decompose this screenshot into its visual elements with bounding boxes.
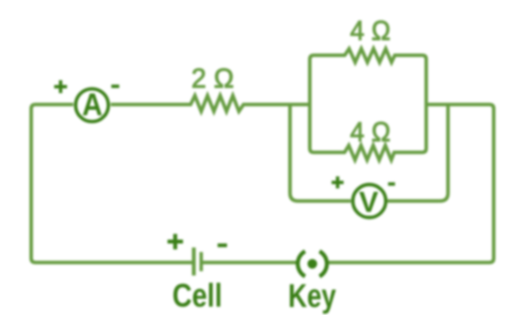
voltmeter U2 circle [353, 185, 386, 218]
voltmeter letter V [359, 192, 378, 212]
voltmeter minus sign [388, 182, 395, 185]
label Key [290, 284, 336, 314]
wire: outer loop left and bottom-left [31, 105, 194, 263]
key S1 left arc [298, 251, 305, 276]
parallel box with resistor R2 (top 4 ohm) and resistor R3 (bottom 4 ohm) [310, 49, 426, 160]
key S1 right arc [320, 251, 327, 276]
ammeter plus sign [54, 80, 67, 93]
label 2 ohm for R1 [193, 68, 233, 87]
wire: bottom middle cell-to-key [201, 261, 297, 265]
wire with resistor R1 (2 ohm) zigzag [111, 96, 310, 112]
wire: voltmeter tap right [388, 105, 449, 202]
cell B1 long plate [192, 248, 196, 276]
label Cell [173, 283, 220, 307]
voltmeter plus sign [332, 176, 344, 188]
key S1 contact dot [307, 259, 317, 269]
ammeter U1 circle [76, 89, 109, 122]
ammeter letter A [83, 94, 102, 116]
cell plus sign [168, 234, 184, 250]
wire: voltmeter tap left [290, 105, 351, 202]
label 4 ohm for R2 [351, 21, 390, 40]
label 4 ohm for R3 [351, 122, 390, 141]
cell minus sign [218, 243, 227, 247]
wire: bottom-right and right vertical [328, 105, 494, 263]
cell B1 short plate [199, 252, 202, 271]
ammeter minus sign [111, 85, 119, 88]
